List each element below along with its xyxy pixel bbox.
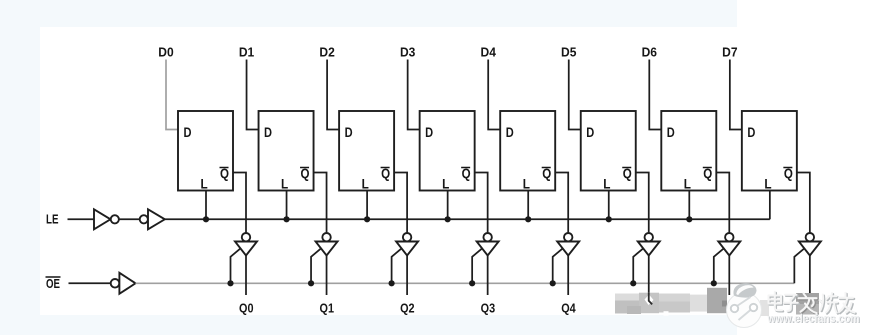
node Q2 output label bbox=[400, 300, 415, 315]
wire Q2 output bbox=[406, 256, 408, 296]
node Q1 output label bbox=[320, 300, 335, 315]
svg-text:Q3: Q3 bbox=[481, 300, 496, 315]
tri-state inverting buffer U26 bbox=[638, 233, 660, 256]
svg-text:LE: LE bbox=[46, 212, 59, 227]
svg-text:D: D bbox=[586, 125, 594, 140]
wire enable tap to tri-state U22 bbox=[311, 249, 321, 283]
node junction OE bus / tri-state U27 enable bbox=[711, 280, 717, 286]
wire D2 to latch U3 D input bbox=[327, 60, 339, 130]
wire enable tap to tri-state U27 bbox=[714, 249, 724, 283]
wire latch U3 L input from LE bus bbox=[366, 191, 368, 220]
node junction OE bus / tri-state U22 enable bbox=[308, 280, 314, 286]
svg-text:L: L bbox=[603, 177, 610, 192]
wire latch U6 Qbar output to tri-state bbox=[636, 173, 649, 234]
wire enable tap to tri-state U23 bbox=[392, 249, 402, 283]
tri-state inverting buffer U24 bbox=[477, 233, 499, 256]
svg-text:D: D bbox=[747, 125, 755, 140]
wire D1 to latch U2 D input bbox=[247, 60, 259, 130]
node D3 input label bbox=[400, 45, 415, 60]
wire enable tap to tri-state U24 bbox=[472, 249, 482, 283]
inverter U12 (OE inverter, bubble on input) bbox=[111, 273, 136, 294]
tri-state inverting buffer U28 bbox=[799, 233, 821, 256]
svg-text:Q0: Q0 bbox=[239, 300, 254, 315]
svg-text:Q1: Q1 bbox=[320, 300, 335, 315]
tri-state inverting buffer U21 bbox=[235, 233, 257, 256]
latch U6 (D latch) bbox=[581, 111, 636, 192]
wire D5 to latch U6 D input bbox=[569, 60, 581, 130]
wire LE input bbox=[68, 218, 95, 220]
node junction LE bus / U1 L bbox=[203, 216, 209, 222]
node D6 input label bbox=[642, 45, 657, 60]
wire latch U3 Qbar output to tri-state bbox=[394, 173, 407, 234]
svg-text:D: D bbox=[667, 125, 675, 140]
tri-state inverting buffer U22 bbox=[316, 233, 338, 256]
wire latch U6 L input from LE bus bbox=[608, 191, 610, 220]
latch U1 (D latch) bbox=[178, 111, 233, 192]
inverter U11 (LE second inverter, bubble on input) bbox=[140, 209, 165, 229]
latch U8 (D latch) bbox=[742, 111, 797, 192]
node Q3 output label bbox=[481, 300, 496, 315]
svg-text:D: D bbox=[345, 125, 353, 140]
node D1 input label bbox=[239, 45, 254, 60]
watermark chinese characters bbox=[769, 292, 856, 314]
svg-text:L: L bbox=[764, 177, 771, 192]
node OE-bar input label bbox=[46, 276, 61, 291]
svg-text:OE: OE bbox=[46, 276, 60, 291]
node junction LE bus / U2 L bbox=[283, 216, 289, 222]
wire latch U1 Qbar output to tri-state bbox=[233, 173, 246, 234]
node LE input label bbox=[46, 212, 59, 227]
node junction OE bus / tri-state U23 enable bbox=[389, 280, 395, 286]
node D4 input label bbox=[481, 45, 497, 60]
svg-text:L: L bbox=[201, 177, 208, 192]
latch U5 (D latch) bbox=[500, 111, 555, 192]
svg-text:L: L bbox=[523, 177, 530, 192]
svg-text:D: D bbox=[425, 125, 433, 140]
wire latch U5 L input from LE bus bbox=[527, 191, 529, 220]
wire Q5 output remnant over mosaic bbox=[649, 293, 652, 305]
wire latch U2 Qbar output to tri-state bbox=[314, 173, 327, 234]
wire latch U7 Qbar output to tri-state bbox=[716, 173, 729, 234]
wire D7 to latch U8 D input bbox=[730, 60, 742, 130]
svg-text:D5: D5 bbox=[561, 45, 576, 60]
wire D4 to latch U5 D input bbox=[488, 60, 500, 130]
wire enable tap to tri-state U25 bbox=[553, 249, 563, 283]
svg-text:D3: D3 bbox=[400, 45, 415, 60]
node D7 input label bbox=[722, 45, 737, 60]
svg-text:www.elecfans.com: www.elecfans.com bbox=[767, 311, 860, 325]
wire Q5 output bbox=[648, 256, 650, 296]
wire enable tap to tri-state U21 bbox=[231, 249, 241, 283]
wire D3 to latch U4 D input bbox=[408, 60, 420, 130]
wire D0 to latch U1 D input bbox=[166, 60, 178, 130]
latch U3 (D latch) bbox=[339, 111, 394, 192]
svg-text:D7: D7 bbox=[722, 45, 737, 60]
inverter U10 (LE first inverter) bbox=[94, 209, 119, 229]
wire latch U4 Qbar output to tri-state bbox=[475, 173, 488, 234]
wire between LE inverters bbox=[119, 218, 140, 220]
svg-text:L: L bbox=[684, 177, 691, 192]
wire LE bus to all latch L inputs bbox=[165, 218, 770, 220]
tri-state inverting buffer U25 bbox=[557, 233, 579, 256]
svg-text:L: L bbox=[281, 177, 288, 192]
node junction LE bus / U7 L bbox=[686, 216, 692, 222]
node junction OE bus / tri-state U25 enable bbox=[550, 280, 556, 286]
svg-text:D: D bbox=[184, 125, 192, 140]
wire Q6 output bbox=[728, 256, 730, 296]
node D0 input label bbox=[158, 45, 173, 60]
wire latch U5 Qbar output to tri-state bbox=[555, 173, 568, 234]
wire latch U8 Qbar output to tri-state bbox=[797, 173, 810, 234]
svg-text:Q2: Q2 bbox=[400, 300, 415, 315]
node D2 input label bbox=[319, 45, 334, 60]
svg-text:D4: D4 bbox=[481, 45, 497, 60]
svg-text:L: L bbox=[362, 177, 369, 192]
watermark logo circle bbox=[727, 283, 762, 327]
svg-text:Q4: Q4 bbox=[561, 300, 576, 315]
svg-text:D: D bbox=[506, 125, 514, 140]
node junction LE bus / U5 L bbox=[525, 216, 531, 222]
wire latch U1 L input from LE bus bbox=[205, 191, 207, 220]
svg-text:D: D bbox=[264, 125, 272, 140]
wire enable tap to tri-state U26 bbox=[633, 249, 643, 283]
latch U4 (D latch) bbox=[420, 111, 475, 192]
latch U2 (D latch) bbox=[259, 111, 314, 192]
node junction OE bus / tri-state U21 enable bbox=[227, 280, 233, 286]
wire latch U4 L input from LE bus bbox=[447, 191, 449, 220]
wire Q7 output bbox=[809, 256, 811, 296]
node Q0 output label bbox=[239, 300, 254, 315]
latch U7 (D latch) bbox=[661, 111, 716, 192]
watermark url text bbox=[767, 311, 861, 326]
wire Q4 output bbox=[567, 256, 569, 296]
wire Q0 output bbox=[245, 256, 247, 296]
gray block behind watermark char bbox=[760, 293, 819, 316]
wire OE enable bus (gray) bbox=[136, 282, 795, 284]
node junction LE bus / U3 L bbox=[364, 216, 370, 222]
node junction OE bus / tri-state U24 enable bbox=[469, 280, 475, 286]
node junction OE bus / tri-state U26 enable bbox=[630, 280, 636, 286]
svg-text:D6: D6 bbox=[642, 45, 657, 60]
svg-text:D0: D0 bbox=[158, 45, 173, 60]
node Q4 output label bbox=[561, 300, 576, 315]
svg-text:D2: D2 bbox=[319, 45, 334, 60]
wire Q1 output bbox=[326, 256, 328, 296]
wire latch U2 L input from LE bus bbox=[286, 191, 288, 220]
wire enable tap to tri-state U28 bbox=[794, 249, 804, 283]
wire D6 to latch U7 D input bbox=[649, 60, 661, 130]
svg-text:L: L bbox=[442, 177, 449, 192]
node junction LE bus / U4 L bbox=[445, 216, 451, 222]
wire latch U8 L input from LE bus bbox=[769, 191, 771, 220]
node junction LE bus / U6 L bbox=[606, 216, 612, 222]
node D5 input label bbox=[561, 45, 576, 60]
tri-state inverting buffer U27 bbox=[718, 233, 740, 256]
wire latch U7 L input from LE bus bbox=[688, 191, 690, 220]
tri-state inverting buffer U23 bbox=[396, 233, 418, 256]
censored mosaic block (pixelated watermark area) bbox=[615, 288, 727, 316]
wire OE input bbox=[69, 282, 112, 284]
wire Q3 output bbox=[487, 256, 489, 296]
svg-text:D1: D1 bbox=[239, 45, 254, 60]
